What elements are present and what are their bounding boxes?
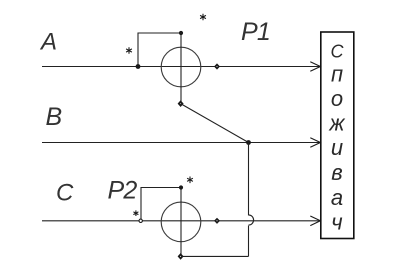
wire node B down to common (upper segment) — [248, 143, 250, 216]
polarity asterisk P1 voltage coil — [200, 14, 206, 21]
wattmeter P1 — [161, 47, 201, 87]
svg-text:п: п — [331, 61, 343, 86]
terminal on phase A right of P1 — [214, 63, 220, 69]
wire phase A — [42, 66, 320, 68]
junction P1 on phase A — [136, 64, 141, 69]
wire down segment below phase C — [248, 226, 250, 257]
arrow into load, phase A — [310, 62, 320, 72]
wire phase B — [42, 142, 320, 144]
load label letter о — [331, 86, 343, 111]
wire P2 voltage-coil bracket — [141, 188, 181, 221]
terminal P2 bottom — [178, 253, 184, 260]
svg-text:P2: P2 — [108, 177, 138, 205]
wattmeter P1 coil vertical wire — [180, 33, 182, 104]
load label letter в — [331, 160, 342, 185]
terminal P1 bottom — [178, 100, 184, 107]
label P1 — [241, 18, 270, 46]
svg-text:B: B — [46, 103, 63, 131]
svg-text:а: а — [331, 185, 343, 210]
wire P1 voltage-coil bracket — [138, 33, 181, 67]
load label letter п — [331, 61, 343, 86]
junction P2 voltage coil top — [179, 185, 183, 189]
wire P1 bottom to node on phase B (diagonal) — [181, 104, 249, 143]
phase label C — [56, 180, 74, 207]
wattmeter P2 — [161, 202, 201, 242]
load box (Споживач) — [321, 32, 354, 239]
wattmeter P2 coil vertical wire — [180, 188, 182, 257]
polarity asterisk P1 current coil — [126, 47, 132, 54]
svg-text:и: и — [331, 135, 343, 160]
wire hop over phase C — [249, 215, 254, 225]
arrow into load, phase B — [310, 138, 320, 148]
polarity asterisk P2 voltage coil — [187, 177, 193, 184]
load label letter и — [331, 135, 343, 160]
terminal P2 on phase C (open) — [139, 219, 142, 222]
polarity asterisk P2 current coil — [133, 210, 138, 216]
label P2 — [108, 177, 138, 205]
svg-text:о: о — [331, 86, 343, 111]
terminal on phase C right of P2 — [214, 218, 220, 224]
wire phase C — [42, 220, 320, 222]
svg-text:в: в — [331, 160, 342, 185]
junction P1 voltage coil top — [179, 31, 183, 35]
svg-text:ч: ч — [331, 209, 342, 234]
svg-text:ж: ж — [328, 110, 345, 135]
svg-text:P1: P1 — [241, 18, 270, 46]
phase label B — [46, 103, 63, 131]
load label letter ж — [328, 110, 345, 135]
arrow into load, phase C — [310, 216, 320, 226]
wire common bottom horizontal to P2 — [181, 255, 249, 257]
svg-text:C: C — [56, 180, 74, 207]
svg-text:С: С — [331, 42, 345, 62]
phase label A — [39, 29, 57, 56]
svg-text:A: A — [39, 29, 57, 56]
junction node on phase B — [246, 140, 251, 145]
load label letter а — [331, 185, 343, 210]
load label letter С — [331, 42, 345, 62]
load label letter ч — [331, 209, 342, 234]
